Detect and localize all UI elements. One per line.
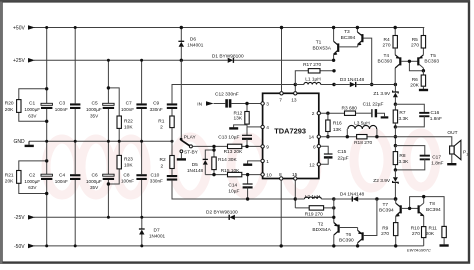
svg-text:C16: C16 (431, 110, 440, 116)
svg-text:R9: R9 (382, 225, 388, 231)
transistor T2 BDX54A (312, 216, 357, 248)
svg-text:R14 30K: R14 30K (218, 157, 237, 163)
svg-text:22µF: 22µF (338, 155, 349, 161)
wire C3/C4 column x=75.2 (74, 28, 76, 246)
svg-text:T3: T3 (344, 29, 350, 35)
svg-text:C1: C1 (29, 101, 35, 107)
svg-text:C13 10µF: C13 10µF (218, 135, 239, 141)
capacitor C6 1000uF 35V (86, 172, 114, 190)
svg-text:C12 330nF: C12 330nF (215, 91, 239, 97)
wire L1/D3 line to D3 (334, 84, 350, 86)
wire C7/C8 column x=141.6 (141, 60, 143, 217)
zener Z2 3.9V (373, 170, 398, 201)
transistor T1 BDX53A (313, 26, 358, 62)
capacitor C15 22uF (bootstrap pin6-pin12) (321, 146, 349, 164)
svg-text:6: 6 (313, 144, 316, 150)
diode D7 1N4001 (139, 217, 166, 246)
svg-text:C2: C2 (29, 172, 35, 178)
svg-text:330nF: 330nF (150, 107, 163, 112)
svg-text:R1: R1 (158, 119, 164, 125)
capacitor C17 1.8nF (parallel R8) (394, 146, 444, 172)
pin 13 (294, 92, 297, 95)
svg-text:10: 10 (266, 172, 272, 178)
svg-text:63V: 63V (28, 113, 37, 118)
svg-text:1N4148: 1N4148 (187, 168, 204, 173)
svg-text:T7: T7 (383, 202, 389, 208)
resistor R16 13K (feedback) (326, 112, 343, 139)
svg-text:OUT: OUT (447, 130, 457, 136)
switch PLAY/ST-BY (177, 135, 199, 160)
diode D4 1N4148 (340, 191, 398, 201)
pin 9 (261, 145, 264, 148)
input IN arrow (197, 101, 225, 107)
svg-text:100nF: 100nF (55, 179, 68, 184)
resistor R3 680 (342, 106, 358, 116)
svg-text:3.3K: 3.3K (399, 116, 410, 122)
svg-text:14: 14 (309, 135, 315, 141)
svg-text:D5: D5 (192, 162, 198, 168)
svg-text:C9: C9 (153, 101, 159, 107)
svg-text:BC390: BC390 (339, 237, 354, 243)
svg-text:R22: R22 (124, 119, 133, 125)
svg-text:2: 2 (312, 111, 315, 117)
resistor R17 270 (295, 62, 335, 85)
capacitor C14 10uF (228, 173, 252, 201)
svg-text:TDA7293: TDA7293 (274, 127, 306, 136)
svg-text:R15 10K: R15 10K (221, 168, 240, 174)
svg-text:1: 1 (266, 159, 269, 165)
capacitor C2 1000uF 63V (24, 172, 52, 190)
wire W1: C9 top rail y=84.5 to pin13 node (172, 85, 295, 104)
svg-text:R3 680: R3 680 (342, 106, 358, 112)
OUT node and wire to speaker (394, 130, 458, 146)
wire pin 8 down to -50V (280, 180, 282, 246)
pin 1 (261, 159, 264, 162)
svg-text:BDX53A: BDX53A (313, 45, 332, 51)
svg-text:9: 9 (266, 144, 269, 150)
resistor R12 13K (234, 102, 250, 124)
capacitor C3 100nF (55, 101, 81, 113)
svg-text:T2: T2 (318, 221, 324, 227)
resistor R18 270 (354, 135, 372, 147)
svg-text:12: 12 (309, 162, 315, 168)
svg-text:R17 270: R17 270 (303, 62, 321, 68)
svg-text:-25V: -25V (14, 215, 25, 221)
wire +25V rail right of D1 (233, 59, 334, 61)
svg-text:1: 1 (466, 152, 468, 156)
svg-text:35V: 35V (90, 113, 99, 118)
svg-text:13K: 13K (333, 127, 342, 133)
svg-text:C3: C3 (59, 101, 65, 107)
wire C5/C6 column x=108.4 (107, 60, 109, 217)
svg-text:BC394: BC394 (426, 207, 441, 213)
inductor L3 5uH (346, 121, 379, 139)
wire pin 14 line (321, 136, 357, 138)
svg-text:BC394: BC394 (341, 35, 356, 41)
svg-text:R13 20K: R13 20K (224, 149, 243, 155)
svg-text:1000µF: 1000µF (24, 107, 40, 112)
svg-text:C15: C15 (338, 149, 347, 155)
wire GND rail (29, 140, 172, 142)
svg-text:15: 15 (292, 172, 298, 178)
wire R7 node down to OUT node (394, 127, 396, 146)
pin 4 (261, 125, 264, 128)
wire -25V rail right of D2 (235, 216, 334, 218)
resistor R6 20K with ground (410, 71, 428, 90)
svg-text:R21: R21 (5, 172, 14, 178)
wire switch pole to pin 9 (192, 145, 227, 147)
svg-text:C7: C7 (126, 101, 132, 107)
capacitor C9 330nF (150, 101, 178, 113)
svg-text:7: 7 (279, 97, 282, 103)
capacitor C7 100nF (121, 101, 147, 113)
resistor R2 2 (160, 141, 175, 175)
capacitor C16 1.8nF (parallel R7) (395, 104, 442, 127)
resistor R20 20K with loop (5, 87, 49, 123)
svg-text:R7: R7 (399, 110, 405, 116)
svg-text:C6: C6 (92, 172, 98, 178)
svg-text:1000µF: 1000µF (86, 179, 102, 184)
svg-text:C11 22µF: C11 22µF (363, 101, 384, 107)
svg-text:IN: IN (197, 101, 202, 107)
pin 2 (317, 112, 320, 115)
wire pin 2 to R3 (321, 112, 345, 114)
svg-text:1.8nF: 1.8nF (431, 160, 443, 166)
svg-text:R10: R10 (411, 225, 420, 231)
diode D2 BYW98100 (in -25V rail) (206, 210, 238, 220)
svg-text:2: 2 (161, 163, 164, 169)
svg-text:R4: R4 (384, 37, 390, 43)
svg-text:3: 3 (266, 101, 269, 107)
resistor R19 270 (295, 206, 335, 218)
pin 8 (280, 177, 283, 180)
capacitor C13 10uF (218, 127, 252, 148)
svg-text:T1: T1 (316, 40, 322, 46)
svg-text:D7: D7 (154, 227, 160, 233)
svg-text:C5: C5 (92, 101, 98, 107)
capacitor C8 100nF (121, 172, 147, 183)
svg-text:100nF: 100nF (55, 107, 68, 112)
svg-text:270: 270 (381, 231, 389, 237)
capacitor C4 100nF (55, 172, 81, 184)
svg-text:20K: 20K (5, 107, 14, 113)
wire +50V rail (34, 27, 424, 29)
pin 14 (317, 135, 320, 138)
svg-text:63V: 63V (28, 185, 37, 190)
resistor R13 20K (224, 144, 243, 155)
svg-text:C17: C17 (432, 154, 441, 160)
svg-text:20K: 20K (410, 82, 419, 88)
svg-text:4: 4 (266, 125, 269, 131)
svg-text:270: 270 (383, 43, 391, 49)
wire C1/C2 column x=46.7 (46, 28, 48, 246)
svg-text:L1 1µH: L1 1µH (305, 77, 321, 83)
wire R15 line to pin 10 (205, 174, 262, 176)
resistor R15 10K (212, 168, 242, 177)
capacitor C1 1000uF 63V (24, 101, 52, 119)
svg-text:8: 8 (279, 172, 282, 178)
pin 7 (280, 92, 283, 95)
svg-text:T6: T6 (346, 232, 352, 238)
svg-text:R5: R5 (412, 37, 418, 43)
svg-text:R18 270: R18 270 (354, 140, 372, 146)
svg-text:20K: 20K (5, 179, 14, 185)
wire pin 13 up to W1 node (294, 85, 296, 92)
svg-text:GND: GND (14, 139, 26, 145)
capacitor C10 330nF (150, 173, 177, 184)
pin 10 (261, 173, 264, 176)
svg-text:BC393: BC393 (378, 59, 393, 65)
resistor R4 270 (383, 26, 398, 49)
svg-text:R23: R23 (124, 156, 133, 162)
wire W2: C10 bottom rail y=199 to pin15 node (172, 181, 295, 199)
speaker P1 (447, 140, 468, 164)
resistor R1 2 (158, 109, 174, 141)
svg-text:D4 1N4148: D4 1N4148 (340, 191, 365, 197)
inductor L1 1uH (295, 77, 335, 87)
svg-text:R20: R20 (5, 101, 14, 107)
pin 3 (261, 102, 264, 105)
svg-text:D1 BYW98100: D1 BYW98100 (212, 54, 244, 60)
wire -25V rail left of D2 (34, 216, 229, 218)
svg-text:270: 270 (412, 231, 420, 237)
resistor R5 270 (411, 28, 426, 49)
svg-text:PLAY: PLAY (184, 135, 197, 141)
svg-text:BDX54A: BDX54A (312, 227, 331, 233)
svg-text:+25V: +25V (13, 58, 25, 64)
svg-text:C4: C4 (59, 172, 65, 178)
svg-text:R2: R2 (160, 157, 166, 163)
wire node to pin 4 (247, 126, 263, 128)
svg-text:BC393: BC393 (424, 59, 439, 65)
svg-text:100nF: 100nF (121, 178, 134, 183)
transistor T3 BC394 (341, 26, 374, 86)
inductor L2 1uH (295, 194, 335, 201)
svg-text:T8: T8 (429, 201, 435, 207)
svg-text:1000µF: 1000µF (24, 179, 40, 184)
capacitor C11 22uF with ground (356, 101, 389, 117)
wire vertical +25V down to PLAY switch x=181.3 (180, 60, 182, 138)
svg-text:13K: 13K (234, 115, 243, 121)
svg-text:R8: R8 (399, 153, 405, 159)
transistor T8 BC394 (408, 195, 444, 227)
svg-text:1N4001: 1N4001 (149, 234, 166, 239)
svg-text:L3 5µH: L3 5µH (354, 121, 370, 127)
wire +25V rail left of D1 (34, 59, 228, 61)
svg-text:Z2 3.9V: Z2 3.9V (373, 178, 391, 184)
svg-text:1.8nF: 1.8nF (430, 116, 442, 122)
svg-text:13: 13 (291, 97, 297, 103)
svg-text:100nF: 100nF (121, 107, 134, 112)
faint pink watermark (46, 132, 436, 195)
wire L2/D4 line to D4 (334, 198, 352, 200)
resistor R22 10K (107, 86, 134, 141)
resistor R11 20K with ground (426, 225, 449, 245)
resistor R14 30K (212, 145, 238, 175)
svg-text:10K: 10K (124, 124, 133, 130)
svg-text:R16: R16 (333, 121, 342, 127)
svg-text:D3 1N4148: D3 1N4148 (340, 77, 365, 83)
svg-text:T4: T4 (384, 53, 390, 59)
resistor R21 20K with loop (5, 159, 49, 195)
svg-text:D2 BYW98100: D2 BYW98100 (206, 210, 238, 216)
svg-text:R6: R6 (412, 77, 418, 83)
transistor T7 BC394 (379, 199, 410, 223)
svg-text:20K: 20K (426, 231, 435, 237)
svg-text:2: 2 (160, 124, 163, 130)
svg-text:1N4001: 1N4001 (187, 42, 204, 47)
wire pin 7 up to +50V (281, 28, 283, 92)
svg-text:C8: C8 (123, 172, 129, 178)
ground at R12/C13 node (229, 124, 262, 128)
svg-text:BC394: BC394 (379, 208, 394, 214)
pin 6 (317, 145, 320, 148)
svg-text:1000µF: 1000µF (86, 107, 102, 112)
capacitor C12 330nF (215, 91, 263, 107)
capacitor C5 1000uF 35V (86, 101, 114, 119)
wire pin 15 down to W2 node and R19 (294, 180, 296, 208)
ground at pin 1 (243, 161, 262, 165)
transistor T5 BC393 (408, 48, 440, 72)
svg-text:EW7AU807C: EW7AU807C (407, 248, 431, 253)
svg-text:10K: 10K (124, 163, 133, 169)
svg-text:35V: 35V (90, 185, 99, 190)
svg-text:ST-BY: ST-BY (184, 150, 199, 156)
svg-text:C14: C14 (228, 182, 237, 188)
pin 12 (317, 163, 320, 166)
zener Z1 3.9V (373, 85, 398, 106)
diode D1 BYW98100 (in +25V rail) (212, 54, 244, 63)
ground symbol at GND label (28, 141, 30, 144)
svg-text:+50V: +50V (13, 25, 25, 31)
svg-text:R11: R11 (429, 225, 438, 231)
resistor R23 10K (107, 141, 134, 185)
diode D5 1N4148 (parallel R14) (187, 148, 216, 174)
svg-text:330nF: 330nF (150, 179, 163, 184)
op-amp U1 TDA7293 (263, 93, 319, 178)
resistor R7 3.3K (393, 104, 409, 128)
svg-text:3.3K: 3.3K (399, 159, 410, 165)
svg-text:C10: C10 (151, 173, 160, 179)
transistor T6 BC390 (339, 199, 377, 248)
diode D6 1N4001 (+50V to +25V) (178, 26, 203, 62)
svg-text:-50V: -50V (14, 244, 25, 250)
svg-text:T5: T5 (430, 53, 436, 59)
diode D3 1N4148 (340, 77, 397, 87)
resistor R9 270 (381, 223, 398, 248)
junction dots on rails (45, 26, 173, 247)
svg-text:10µF: 10µF (228, 189, 239, 195)
svg-text:Z1 3.9V: Z1 3.9V (373, 91, 391, 97)
resistor R8 3.3K (393, 144, 409, 170)
transistor T4 BC393 (378, 48, 410, 85)
wire -50V rail (34, 245, 424, 247)
svg-text:R19 270: R19 270 (305, 211, 323, 217)
svg-text:270: 270 (411, 43, 419, 49)
resistor R10 270 (411, 225, 426, 246)
pin 15 (294, 177, 297, 180)
